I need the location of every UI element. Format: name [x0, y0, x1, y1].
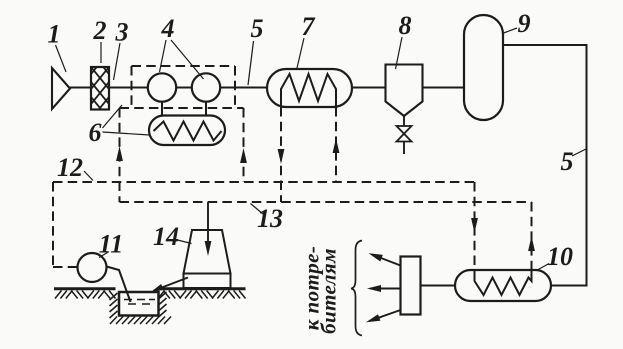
svg-text:7: 7 [302, 12, 316, 41]
text: к потребителям [300, 246, 341, 334]
label 1 [48, 20, 67, 73]
compressor stage circle 4b [192, 73, 220, 101]
pit excavation hatching [110, 292, 172, 324]
pipe aftercooler to separator 8 [352, 87, 386, 89]
supply riser from line 12 to aftercooler 7 [333, 107, 340, 182]
compressor stage circle 4a [148, 73, 176, 101]
label 14 [153, 222, 192, 251]
return riser heat exchanger 10 to line 13 [528, 202, 535, 270]
svg-text:14: 14 [153, 222, 179, 251]
compressor unit dashed enclosure [120, 66, 244, 108]
label 5 (right) [561, 147, 587, 176]
pipe separator to receiver 9 [423, 87, 465, 89]
cooling water riser (left, from line 12/13 up to compressor unit) [116, 108, 123, 202]
cooling tower 14 [184, 230, 231, 288]
brace [351, 241, 362, 336]
pump suction pipe into tank [107, 267, 131, 303]
label 2 [93, 16, 107, 63]
svg-text:10: 10 [547, 242, 573, 271]
label 11 [99, 230, 124, 259]
svg-text:6: 6 [89, 118, 102, 147]
water tank in pit [119, 292, 159, 316]
connector stage4a to intercooler 6 [161, 102, 163, 116]
moisture separator 8 [386, 65, 423, 117]
label 13 [251, 204, 284, 234]
tower drain to pit with arrow [151, 278, 189, 293]
label 9 [504, 9, 531, 38]
pipe filter to compressor [109, 87, 148, 89]
cooling water return line 13 [120, 201, 532, 203]
return drop from aftercooler 7 to line 13 [278, 107, 285, 202]
pipe compressor to aftercooler 7 [220, 87, 267, 89]
label 12 [57, 153, 93, 182]
svg-text:9: 9 [518, 9, 531, 38]
ground surface left of pit [54, 289, 116, 299]
svg-text:11: 11 [99, 230, 124, 259]
svg-text:5: 5 [251, 14, 264, 43]
svg-text:бителям: бителям [317, 248, 341, 334]
connector stage4b to intercooler 6 [205, 102, 207, 116]
label 4 with two leaders [160, 14, 204, 79]
supply drop line12 to heat exchanger 10 [471, 182, 478, 270]
svg-text:1: 1 [48, 20, 61, 49]
svg-text:5: 5 [561, 147, 574, 176]
svg-text:4: 4 [161, 14, 175, 43]
cooling water riser (right of compressor unit) [240, 108, 247, 182]
pipe intake to filter [70, 87, 91, 89]
svg-text:12: 12 [57, 153, 83, 182]
air main 5: receiver to heat exchanger 10 [503, 45, 587, 286]
warm water feed line 13 to cooling tower 14 [205, 202, 212, 256]
heat exchanger 10 (oval with coil) [455, 270, 551, 301]
distribution box [401, 257, 421, 315]
filter 2 (cross-hatched box) [91, 37, 109, 149]
cooling water supply line 12 [53, 182, 475, 267]
svg-text:3: 3 [115, 18, 129, 47]
consumer arrow lower [366, 310, 401, 322]
label 8 [396, 11, 412, 69]
pipe between stages [176, 87, 192, 89]
circulating pump 11 [78, 253, 107, 282]
consumer arrow upper [369, 253, 401, 265]
label 3 [114, 18, 129, 81]
label 7 [297, 12, 316, 68]
svg-text:8: 8 [399, 11, 412, 40]
consumer arrow middle [367, 285, 401, 292]
label 10 [537, 242, 574, 271]
pipe heat exchanger to distribution box [421, 285, 456, 287]
intercooler 6 (oval with coil) [149, 116, 225, 146]
ground surface right of pit [158, 289, 246, 299]
label 5 (top) [248, 14, 264, 85]
svg-text:2: 2 [93, 16, 107, 45]
air receiver 9 (vertical capsule) [464, 15, 503, 120]
svg-text:13: 13 [257, 204, 283, 233]
air intake cone 1 [52, 68, 70, 109]
label 6 with two leaders [89, 105, 150, 147]
aftercooler 7 (oval with coil) [267, 69, 352, 107]
drain valve [397, 126, 412, 154]
separator drain pipe [403, 116, 405, 126]
